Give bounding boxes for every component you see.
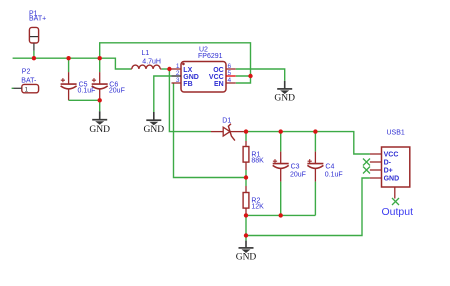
svg-text:P2: P2: [22, 69, 31, 76]
ground GND output: [236, 241, 257, 263]
svg-text:USB1: USB1: [387, 130, 405, 137]
wire R2 bottom to ground node: [245, 215, 247, 235]
capacitor C5: [61, 58, 96, 100]
junction VCC-EN: [248, 74, 252, 78]
svg-text:GND: GND: [384, 176, 400, 183]
svg-text:D+: D+: [384, 168, 393, 175]
svg-text:1: 1: [25, 86, 29, 93]
svg-text:4: 4: [228, 77, 232, 84]
wire to input ground: [99, 100, 101, 111]
svg-text:VCC: VCC: [384, 152, 399, 159]
svg-text:5: 5: [228, 70, 232, 77]
capacitor C6: [92, 58, 125, 100]
svg-text:L1: L1: [142, 50, 150, 57]
capacitor C3: [273, 132, 306, 216]
svg-text:C3: C3: [291, 164, 300, 171]
svg-text:GND: GND: [183, 74, 199, 81]
inductor L1: [131, 50, 162, 69]
svg-text:VCC: VCC: [209, 74, 224, 81]
svg-text:C4: C4: [325, 164, 334, 171]
svg-text:20uF: 20uF: [109, 87, 125, 94]
svg-text:12K: 12K: [251, 203, 264, 210]
svg-text:GND: GND: [274, 94, 295, 104]
junction LX-L1-D1: [167, 67, 171, 71]
svg-text:OC: OC: [213, 67, 224, 74]
svg-text:0.1uF: 0.1uF: [78, 87, 96, 94]
connector USB1: [370, 130, 410, 199]
IC U2: [172, 47, 236, 93]
junction C3 bottom: [279, 213, 283, 217]
wire to output ground: [245, 236, 247, 241]
wire P1 pin to rail: [33, 51, 35, 58]
wire output rail: [244, 132, 370, 154]
junction C5-C6 bottom: [98, 98, 102, 102]
ground GND OC: [274, 81, 295, 104]
svg-text:LX: LX: [183, 67, 192, 74]
ground GND input: [89, 111, 110, 135]
svg-text:FB: FB: [183, 81, 192, 88]
svg-text:2: 2: [176, 70, 180, 77]
wire VCC/EN tie: [236, 76, 251, 83]
resistor R1: [243, 132, 264, 178]
junction R2-bottom rail: [244, 213, 248, 217]
wire bottom rail: [246, 214, 315, 216]
junction C6-rail: [98, 56, 102, 60]
svg-text:D1: D1: [222, 118, 231, 125]
junction C4 top: [313, 129, 317, 133]
junction ground node: [244, 233, 248, 237]
svg-text:GND: GND: [236, 252, 257, 262]
svg-text:FP6291: FP6291: [198, 53, 223, 60]
svg-text:D-: D-: [384, 160, 392, 167]
resistor R2: [243, 178, 264, 216]
svg-text:BAT-: BAT-: [21, 77, 37, 84]
svg-text:EN: EN: [214, 81, 224, 88]
wire ground node to USB GND: [246, 178, 370, 236]
wire main BAT+ rail: [13, 58, 131, 69]
wire C5-C6 bottom: [69, 99, 100, 101]
wire OC to ground: [236, 69, 285, 81]
ground GND U2: [144, 112, 165, 135]
wire top rail to VCC/EN: [100, 43, 251, 76]
svg-text:4.7uH: 4.7uH: [142, 58, 161, 65]
svg-text:88K: 88K: [251, 157, 264, 164]
svg-text:GND: GND: [89, 125, 110, 135]
svg-text:1: 1: [176, 63, 180, 70]
no-connect X on D+: [363, 167, 370, 174]
svg-text:6: 6: [228, 63, 232, 70]
junction R1-R2-FB: [244, 175, 248, 179]
junction D1-R1-output: [244, 129, 248, 133]
junction P1-rail: [32, 56, 36, 60]
svg-text:Output: Output: [382, 206, 414, 218]
wire U2 GND pin to ground: [154, 76, 172, 112]
svg-text:0.1uF: 0.1uF: [325, 171, 343, 178]
wire FB to divider: [174, 83, 247, 178]
wire LX node to D1 anode: [169, 69, 211, 132]
svg-text:BAT+: BAT+: [29, 16, 46, 23]
svg-text:20uF: 20uF: [290, 171, 306, 178]
connector P1: [29, 11, 46, 51]
svg-text:3: 3: [176, 77, 180, 84]
diode D1: [211, 118, 244, 141]
wire L1 to U2 LX: [162, 68, 172, 70]
connector P2: [12, 69, 39, 94]
junction C5-rail: [66, 56, 70, 60]
no-connect X on D-: [363, 159, 370, 166]
no-connect X on shield pin: [392, 198, 399, 205]
svg-text:GND: GND: [144, 125, 165, 135]
capacitor C4: [307, 132, 342, 216]
junction C3 top: [279, 129, 283, 133]
